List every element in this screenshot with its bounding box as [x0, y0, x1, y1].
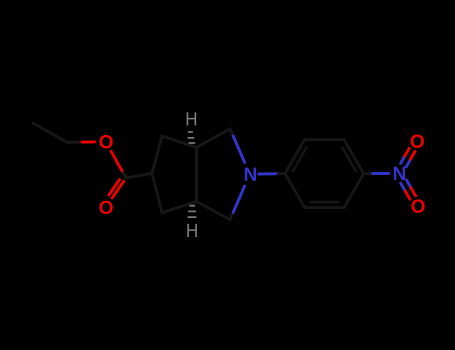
bond phenyl-nitroN nitrogen half (blue)	[373, 172, 389, 175]
bond CH2-O ester oxygen half (red)	[82, 140, 95, 143]
atom label N pyrrolidine	[245, 168, 256, 181]
bond esterO-carbonylC oxygen part (red)	[111, 151, 123, 173]
bond benzene TL-TR	[305, 138, 345, 141]
bond benzene TR-R	[344, 140, 364, 174]
bond benzene R-BR	[344, 174, 364, 208]
bond N-phenyl nitrogen half (blue)	[259, 172, 279, 175]
atom label O nitro bottom	[411, 199, 424, 212]
atom label N nitro	[394, 167, 405, 180]
bond C=O carbonyl double line 1 (red)	[112, 181, 124, 198]
atom label O carbonyl	[99, 201, 112, 214]
bond C3a-C1	[197, 129, 231, 148]
bond C1-N carbon half	[230, 129, 233, 136]
bond C4-C3a	[162, 136, 197, 148]
bond C1-N nitrogen half (blue)	[233, 136, 244, 162]
bond C=O carbonyl double line 2 (red)	[109, 180, 120, 195]
bond benzene inner double BR-BL	[311, 201, 339, 204]
hashed wedge to H at top stereocenter C3a	[188, 132, 196, 143]
bond C5-C4	[152, 136, 162, 173]
bond CH2-O ester carbon half	[67, 141, 82, 144]
bond C5-C6	[152, 173, 162, 213]
atom label O ester	[99, 135, 112, 148]
bond C6-C6a	[162, 202, 197, 213]
bond C3-N nitrogen half (blue)	[233, 186, 244, 212]
bond N=O nitro bottom line b blue half	[401, 183, 406, 191]
bond C6a-C3	[197, 202, 231, 220]
atom label H top	[187, 112, 197, 125]
bond benzene inner double L-TL	[293, 148, 307, 172]
bond N=O nitro bottom line b red half	[405, 191, 410, 199]
bond benzene L-TL	[285, 140, 305, 174]
bond N=O nitro top line b red half	[411, 152, 415, 160]
bond N=O nitro top line b blue half	[406, 159, 410, 167]
bond carbonylC-C5	[126, 173, 152, 178]
bond C3-N carbon half	[230, 212, 233, 219]
bond N-phenyl carbon tip	[278, 172, 285, 175]
atom label O nitro top	[411, 134, 424, 147]
bond N=O nitro top line a red half	[405, 148, 409, 156]
bond phenyl-nitroN carbon half	[364, 172, 373, 175]
bond benzene BR-BL	[305, 206, 345, 209]
bond N=O nitro top line a blue half	[401, 156, 405, 164]
hashed wedge to H at bottom stereocenter C6a	[188, 206, 197, 217]
bond benzene BL-L	[285, 174, 305, 208]
bond benzene inner double TR-R	[342, 148, 356, 172]
bond CH3-CH2 (ethyl)	[33, 123, 67, 142]
bond N=O nitro bottom line a blue half	[406, 180, 411, 188]
bond esterO-carbonylC carbon tip	[123, 173, 126, 178]
bond C3a-C6a ring fusion	[195, 148, 198, 202]
atom label H bottom	[187, 224, 197, 237]
bond N=O nitro bottom line a red half	[411, 188, 416, 196]
